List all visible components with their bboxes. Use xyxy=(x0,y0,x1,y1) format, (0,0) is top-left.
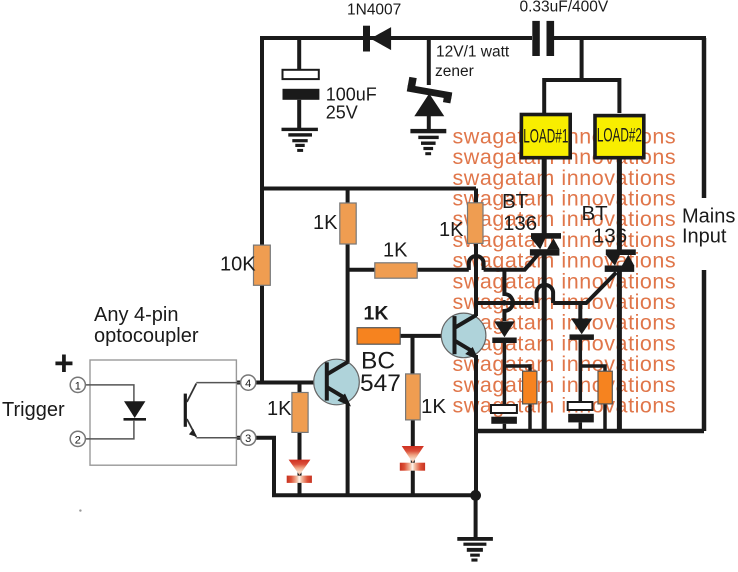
svg-text:1N4007: 1N4007 xyxy=(347,2,401,19)
transistor Q1 BC547 xyxy=(314,359,360,406)
wire gate1 to triac xyxy=(484,251,542,270)
optocoupler U1 box xyxy=(90,360,236,465)
wire triac1 bottom xyxy=(542,253,547,431)
svg-text:12V/1 watt: 12V/1 watt xyxy=(436,44,510,61)
ground under ZD1 xyxy=(410,129,446,155)
wire pin3 drop xyxy=(236,438,274,495)
opto inner LED wire xyxy=(86,385,134,402)
opto inner LED wire low xyxy=(86,420,134,439)
pin 3 xyxy=(241,430,256,445)
svg-text:1K: 1K xyxy=(383,240,408,262)
wire Q1 collector line xyxy=(346,243,350,364)
resistor R7 1K bold xyxy=(357,328,400,345)
wire hop over triac1 line xyxy=(537,285,554,303)
wire mid horizontal rail xyxy=(262,187,476,191)
wire snubber2 R link xyxy=(580,366,605,372)
wire pin4 to base xyxy=(236,381,326,385)
wire gate1 horizontal xyxy=(348,268,469,272)
svg-text:1K: 1K xyxy=(421,395,446,418)
wire R6 stub xyxy=(411,336,415,374)
opto inner collector wire xyxy=(196,382,240,384)
wire snubber1 cap bottom xyxy=(503,424,507,431)
svg-text:0.33uF/400V: 0.33uF/400V xyxy=(520,0,609,16)
capacitor C2 0.33uF/400V xyxy=(532,21,554,56)
svg-text:Input: Input xyxy=(682,226,727,248)
ground under C1 xyxy=(282,128,318,152)
svg-text:Mains: Mains xyxy=(682,206,735,228)
svg-text:3: 3 xyxy=(245,433,251,445)
wire diode2 lower xyxy=(579,339,583,402)
svg-text:BT: BT xyxy=(582,202,609,225)
triac T2 BT136 xyxy=(605,249,636,271)
watermark xyxy=(453,124,677,417)
svg-text:Any 4-pin: Any 4-pin xyxy=(94,304,179,326)
wire diode1 lower xyxy=(503,342,507,405)
wire snubber1 R bottom xyxy=(528,404,532,431)
svg-text:10K: 10K xyxy=(220,254,256,276)
resistor R8 snubber1 xyxy=(523,371,537,404)
wire diode1 branch hop xyxy=(504,270,512,321)
diode D1 1N4007 xyxy=(363,26,391,52)
wire snubber2 R bottom xyxy=(603,404,607,431)
svg-text:1K: 1K xyxy=(364,303,389,325)
wire R4 stub top xyxy=(474,189,478,205)
svg-text:1K: 1K xyxy=(439,219,464,241)
resistor R5 1K xyxy=(292,393,308,433)
wire snubber2 cap bottom xyxy=(579,422,583,431)
wire loads branch xyxy=(580,38,584,80)
node dot on gate2 wire xyxy=(501,300,507,306)
wire snubber bottom rail xyxy=(476,429,704,434)
resistor R2 1K xyxy=(340,203,356,244)
opto inner emitter wire xyxy=(196,437,240,439)
resistor R4 1K xyxy=(468,203,484,244)
load LOAD#1 xyxy=(521,115,570,158)
svg-text:optocoupler: optocoupler xyxy=(94,325,199,347)
wire R6 to LED2 xyxy=(411,420,415,495)
wire ZD1 to ground xyxy=(427,116,431,130)
svg-text:LOAD#1: LOAD#1 xyxy=(523,127,568,147)
svg-text:1K: 1K xyxy=(267,398,292,420)
svg-text:2: 2 xyxy=(75,434,81,446)
wire snubber1 R link xyxy=(504,366,530,372)
diode D3 xyxy=(570,319,594,340)
wire Q1 emitter down xyxy=(346,403,350,495)
capacitor C4 snubber2 xyxy=(568,402,594,422)
wire loads split xyxy=(544,80,619,113)
wire mains right upper xyxy=(702,38,707,198)
wire base divider xyxy=(400,334,453,338)
svg-text:LOAD#2: LOAD#2 xyxy=(597,126,642,146)
capacitor C1 100uF xyxy=(283,70,320,100)
wire mains right lower xyxy=(702,270,707,431)
svg-text:100uF: 100uF xyxy=(326,85,377,105)
opto LED diode xyxy=(124,401,147,419)
resistor R1 10K xyxy=(254,245,271,285)
wire C1 to ground xyxy=(297,100,301,128)
stray dot xyxy=(79,509,81,511)
wire gate2 horizontal xyxy=(476,301,534,305)
resistor R6 1K xyxy=(406,374,421,420)
wire left vertical supply xyxy=(260,36,264,383)
svg-text:1: 1 xyxy=(75,380,81,392)
wire bottom ground rail xyxy=(272,493,475,497)
wire diode2 branch xyxy=(578,303,582,319)
wire R5 stub xyxy=(298,383,302,394)
opto phototransistor xyxy=(184,384,197,438)
wire Q2 emitter to ground xyxy=(474,355,478,496)
resistor R9 snubber2 xyxy=(598,371,612,404)
wire top supply rail xyxy=(262,36,532,40)
wire triac2 bottom xyxy=(617,269,622,431)
LED LED2 xyxy=(400,446,425,471)
resistor R3 1K horizontal xyxy=(375,263,417,278)
triac T1 BT136 xyxy=(530,233,561,255)
svg-text:547: 547 xyxy=(360,370,401,397)
wire ground stub xyxy=(474,495,478,538)
svg-text:136: 136 xyxy=(503,212,537,235)
load LOAD#2 xyxy=(595,116,644,158)
wire hop over collector line xyxy=(469,256,484,270)
svg-text:4: 4 xyxy=(245,378,251,390)
svg-text:zener: zener xyxy=(435,63,474,80)
wire triac1 top xyxy=(542,160,547,237)
ground main xyxy=(457,537,493,562)
wire 100uF branch xyxy=(297,38,301,69)
capacitor C3 snubber1 xyxy=(491,405,517,424)
wire Q2 collector line xyxy=(474,243,478,316)
junction dot ground node xyxy=(470,490,481,501)
diode D2 xyxy=(492,321,516,343)
wire triac2 top xyxy=(617,160,622,253)
pin 1 xyxy=(70,377,85,392)
wire R2 stub top xyxy=(346,189,350,205)
svg-text:Trigger: Trigger xyxy=(2,399,65,421)
svg-text:+: + xyxy=(54,345,74,383)
pin 4 xyxy=(241,375,256,390)
wire R5 to LED1 xyxy=(298,432,302,495)
svg-text:swagatam innovations: swagatam innovations xyxy=(453,394,677,418)
transistor Q2 xyxy=(441,313,486,360)
pin 2 xyxy=(70,431,85,446)
svg-text:136: 136 xyxy=(593,225,627,248)
wire top rail right of cap xyxy=(554,36,706,40)
wire zener branch xyxy=(427,38,431,85)
svg-text:25V: 25V xyxy=(326,103,358,123)
zener diode ZD1 xyxy=(406,77,454,116)
svg-text:BT: BT xyxy=(502,190,529,213)
svg-text:1K: 1K xyxy=(313,212,338,234)
wire gate2 to triac xyxy=(553,273,616,304)
